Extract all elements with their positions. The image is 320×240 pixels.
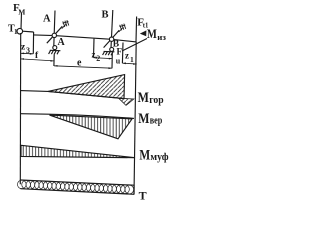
svg-text:М: М <box>139 147 150 163</box>
svg-text:Т: Т <box>139 188 147 202</box>
support A vertical <box>54 11 55 46</box>
Mver triangle <box>50 115 133 139</box>
ground under B <box>103 47 115 55</box>
diagonal slash at shaft right end <box>122 39 147 52</box>
label F_t1 <box>137 16 148 29</box>
support B diagonal <box>104 30 120 47</box>
label z2 <box>92 50 101 64</box>
moment M_iz arrowhead <box>140 30 147 36</box>
Mgor baseline <box>20 91 124 99</box>
A lower dim vertical <box>53 54 55 66</box>
svg-text:z: z <box>92 50 96 60</box>
Mmuf triangle <box>21 145 135 157</box>
force F_t1 line <box>135 17 138 42</box>
left axis / projection line <box>19 33 21 184</box>
svg-text:A: A <box>43 14 51 25</box>
label Mgor <box>138 90 164 106</box>
svg-text:М: М <box>138 90 149 106</box>
label M_iz <box>147 26 167 42</box>
svg-text:3: 3 <box>26 46 30 55</box>
svg-text:e: e <box>77 57 82 68</box>
svg-text:вер: вер <box>150 116 163 127</box>
svg-text:2: 2 <box>96 54 100 63</box>
label z3 <box>21 43 30 55</box>
label F over u near B <box>116 47 123 66</box>
right projection line <box>134 42 136 195</box>
dim e <box>54 66 112 68</box>
anchor at B <box>119 24 126 32</box>
label Mver <box>138 111 162 127</box>
svg-text:М: М <box>147 26 157 41</box>
support B vertical <box>111 10 113 50</box>
support A center circle <box>52 33 56 37</box>
Mver baseline <box>20 114 134 119</box>
svg-text:F: F <box>117 47 123 57</box>
svg-text:гор: гор <box>149 95 164 106</box>
ground under A <box>49 46 61 55</box>
force F_M line <box>20 13 23 30</box>
support A diagonal <box>47 26 63 43</box>
section line z3 <box>32 32 34 54</box>
shaft line <box>34 35 137 42</box>
Mgor triangle <box>48 75 125 99</box>
dim z2 <box>94 57 113 60</box>
dim z1 <box>122 62 136 65</box>
label z1 <box>125 51 134 65</box>
torque circle at coupling <box>17 28 23 34</box>
svg-text:u: u <box>116 57 121 66</box>
svg-text:B: B <box>102 10 109 21</box>
svg-text:A: A <box>58 37 66 48</box>
T band chain hatch <box>17 180 133 194</box>
svg-text:М: М <box>138 111 149 127</box>
svg-text:1: 1 <box>130 55 134 64</box>
label T1 <box>8 24 18 37</box>
dim f <box>20 59 54 61</box>
label Mmuf <box>139 147 168 163</box>
B lower dim vertical <box>111 53 113 68</box>
svg-text:из: из <box>157 32 166 42</box>
T band outline <box>21 180 135 194</box>
dim z3 <box>21 52 34 55</box>
coupling hub line <box>23 30 34 33</box>
section line z2 <box>93 39 96 58</box>
section line z1 <box>121 43 124 64</box>
svg-text:z: z <box>125 51 129 61</box>
support B center circle <box>109 37 113 41</box>
label F_M <box>13 2 25 16</box>
Mgor small triangle <box>119 98 134 105</box>
anchor at A <box>62 20 69 28</box>
svg-text:муф: муф <box>150 152 168 163</box>
